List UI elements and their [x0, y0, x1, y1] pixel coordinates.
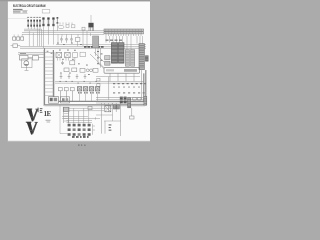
vertical wires to VECU — [96, 45, 99, 56]
subtitle row 2 — [13, 11, 21, 12]
enclosure around horn — [22, 59, 33, 68]
label speck rows right — [113, 83, 146, 84]
terminal ladder — [63, 107, 69, 123]
page bottom edge line — [8, 140, 150, 143]
wire: line C with corner — [96, 103, 113, 121]
pin dots under relays — [78, 92, 99, 94]
harness enclosure inner — [53, 50, 143, 101]
wires mid-bottom — [68, 103, 112, 124]
wire: left branch bus 2 — [18, 53, 45, 55]
connector strip pin stubs — [106, 34, 141, 36]
relay square RB — [65, 52, 71, 57]
fuse F1 — [27, 20, 29, 27]
cap C2 — [65, 37, 68, 43]
diode box D1 — [76, 37, 80, 41]
diagonal wires into ECU area — [90, 48, 104, 68]
breaker tower T1 — [42, 17, 44, 26]
bus junction dots — [60, 81, 97, 84]
sensor box B2 — [17, 37, 20, 40]
footer text — [72, 136, 89, 138]
wire: line B — [68, 110, 104, 112]
fuse F3 — [33, 20, 35, 27]
relay square RC (light) — [73, 53, 78, 58]
contact box B — [72, 25, 75, 28]
left machine cluster — [20, 53, 45, 70]
junction box above ladder — [49, 97, 70, 104]
svg-text:ELECTRICAL CIRCUIT DIAGRAM: ELECTRICAL CIRCUIT DIAGRAM — [13, 4, 46, 8]
wires — [25, 58, 45, 71]
faint frame line top-left — [8, 17, 28, 20]
squiggle under 1E — [46, 120, 51, 123]
component row mid (y68-72) — [64, 68, 98, 72]
connector column D — [131, 50, 135, 67]
connector strip CN-top (long, hatched, two rows) — [104, 29, 144, 34]
connector column C — [125, 50, 129, 67]
wire: drops — [105, 103, 117, 112]
mid-left ECU specks — [97, 51, 103, 64]
small box on line — [88, 106, 92, 109]
wire: br bus 1 — [96, 100, 146, 106]
box M2 — [33, 56, 39, 60]
big V mark 1 (bold serif V) — [27, 109, 39, 122]
contact box A — [66, 25, 69, 28]
cluster top link lines — [67, 120, 93, 122]
small box row right — [133, 97, 141, 100]
switch S2 with lead — [11, 44, 20, 48]
relay K3 — [89, 87, 93, 91]
stubs down — [80, 94, 98, 102]
svg-text:1E: 1E — [44, 111, 52, 118]
fuse labels — [27, 16, 41, 19]
wire: fuse link bus — [24, 28, 42, 30]
wire: br bus 2 — [96, 102, 143, 104]
page top shadow edge — [0, 0, 150, 1]
small legend box top-center — [42, 10, 50, 13]
small marks right of V1 — [38, 108, 43, 113]
breaker tower T2 — [47, 17, 49, 26]
fuse F5 — [39, 20, 41, 27]
wires: fuse drops — [28, 27, 40, 29]
mid buses — [18, 45, 146, 55]
caps row under top bus — [60, 37, 80, 43]
small parts left of relay bank — [58, 87, 74, 101]
bottom dense connector cluster (speck grid) — [67, 120, 96, 135]
relay K2 — [83, 87, 87, 91]
wire: mid bus 2 — [20, 47, 146, 49]
right edge connector column — [139, 44, 144, 70]
small connector pair — [113, 105, 119, 109]
relay square RA — [56, 52, 62, 57]
scattered wire label specks — [47, 43, 90, 75]
harness enclosure outer — [44, 48, 146, 106]
hatched box mid — [93, 36, 99, 48]
wire: upper mid bus — [56, 44, 146, 46]
fuse F4 — [36, 20, 38, 27]
small boxes below VECU left — [97, 77, 109, 100]
tiny box — [82, 27, 85, 30]
box M1 — [20, 55, 29, 60]
ECU block right (dense) — [118, 43, 124, 64]
switch oval SW1 — [58, 25, 64, 28]
sensor box B1 — [13, 37, 16, 40]
ECU long box (VECU) — [104, 68, 140, 74]
wire: line A — [68, 107, 112, 109]
cap C3 — [70, 37, 73, 43]
breaker tower T3 — [52, 17, 54, 26]
hatched bar — [128, 98, 131, 108]
sensor box B3 — [21, 37, 24, 40]
tick pins — [60, 22, 72, 24]
bottom-right bus — [96, 100, 146, 136]
ECU block left (dense) — [111, 43, 117, 64]
subtitle row 1 — [13, 9, 23, 10]
relay K1 — [77, 87, 81, 91]
big V mark 2 (bold serif V) — [26, 122, 38, 135]
left small box row — [13, 34, 24, 40]
wire: ladder bottom drop — [60, 104, 68, 134]
breaker tower T4 — [57, 17, 59, 24]
strip drops to right column — [106, 36, 143, 50]
wire bundle (vertical) — [29, 24, 57, 48]
small boxes above VECU left — [105, 56, 110, 66]
relay bank row — [77, 87, 99, 102]
page left edge line — [6, 1, 9, 141]
bottom right relay square with X — [105, 106, 111, 112]
right page-edge connector — [145, 56, 148, 62]
wire: lower bus A — [55, 80, 144, 82]
label smudge — [20, 53, 26, 54]
wire: VECU underline — [96, 76, 140, 78]
wires below VECU — [110, 70, 142, 100]
drops into bottom cluster — [69, 108, 89, 123]
wire: mid bus 1 — [20, 45, 146, 47]
page (white scanned sheet) — [8, 1, 150, 141]
specks under — [109, 124, 112, 130]
stubs up to bus — [14, 34, 22, 37]
gray footer specks — [78, 144, 86, 145]
dark grid 2x2 — [120, 97, 127, 104]
ECU text specks above block — [106, 40, 123, 41]
wire: lower bus B — [55, 82, 144, 84]
wire: top bus 3 — [22, 33, 104, 35]
wire: top bus 2 — [22, 32, 104, 34]
viewer gray background — [0, 0, 150, 150]
vertical drops top-mid — [58, 31, 91, 47]
lower bus — [55, 77, 144, 84]
wire: vertical left — [101, 103, 103, 134]
small pin cluster — [58, 52, 86, 60]
dark bus label dashes — [84, 46, 104, 48]
component row mid (y60-66) — [61, 61, 75, 65]
fuse row — [27, 17, 41, 27]
wires crossing enclosure — [45, 57, 54, 96]
fuse F2 — [30, 20, 32, 27]
relay K4 — [95, 87, 99, 91]
small drop + box right — [96, 97, 143, 119]
bottom long wire — [62, 117, 100, 120]
wire: drop from cluster — [104, 121, 106, 134]
component row (y74-79) T-bars — [60, 74, 87, 79]
cap C1 — [60, 37, 63, 43]
dark relay module top-mid — [88, 15, 93, 31]
wire: lower link — [104, 103, 121, 136]
key switch cluster — [58, 22, 85, 30]
wire: left branch bus 1 — [18, 52, 53, 54]
wire: top bus 1 — [24, 30, 104, 32]
bus wires (top band) — [22, 29, 104, 34]
horn circle — [24, 61, 29, 66]
far right hatched bar — [144, 96, 147, 105]
